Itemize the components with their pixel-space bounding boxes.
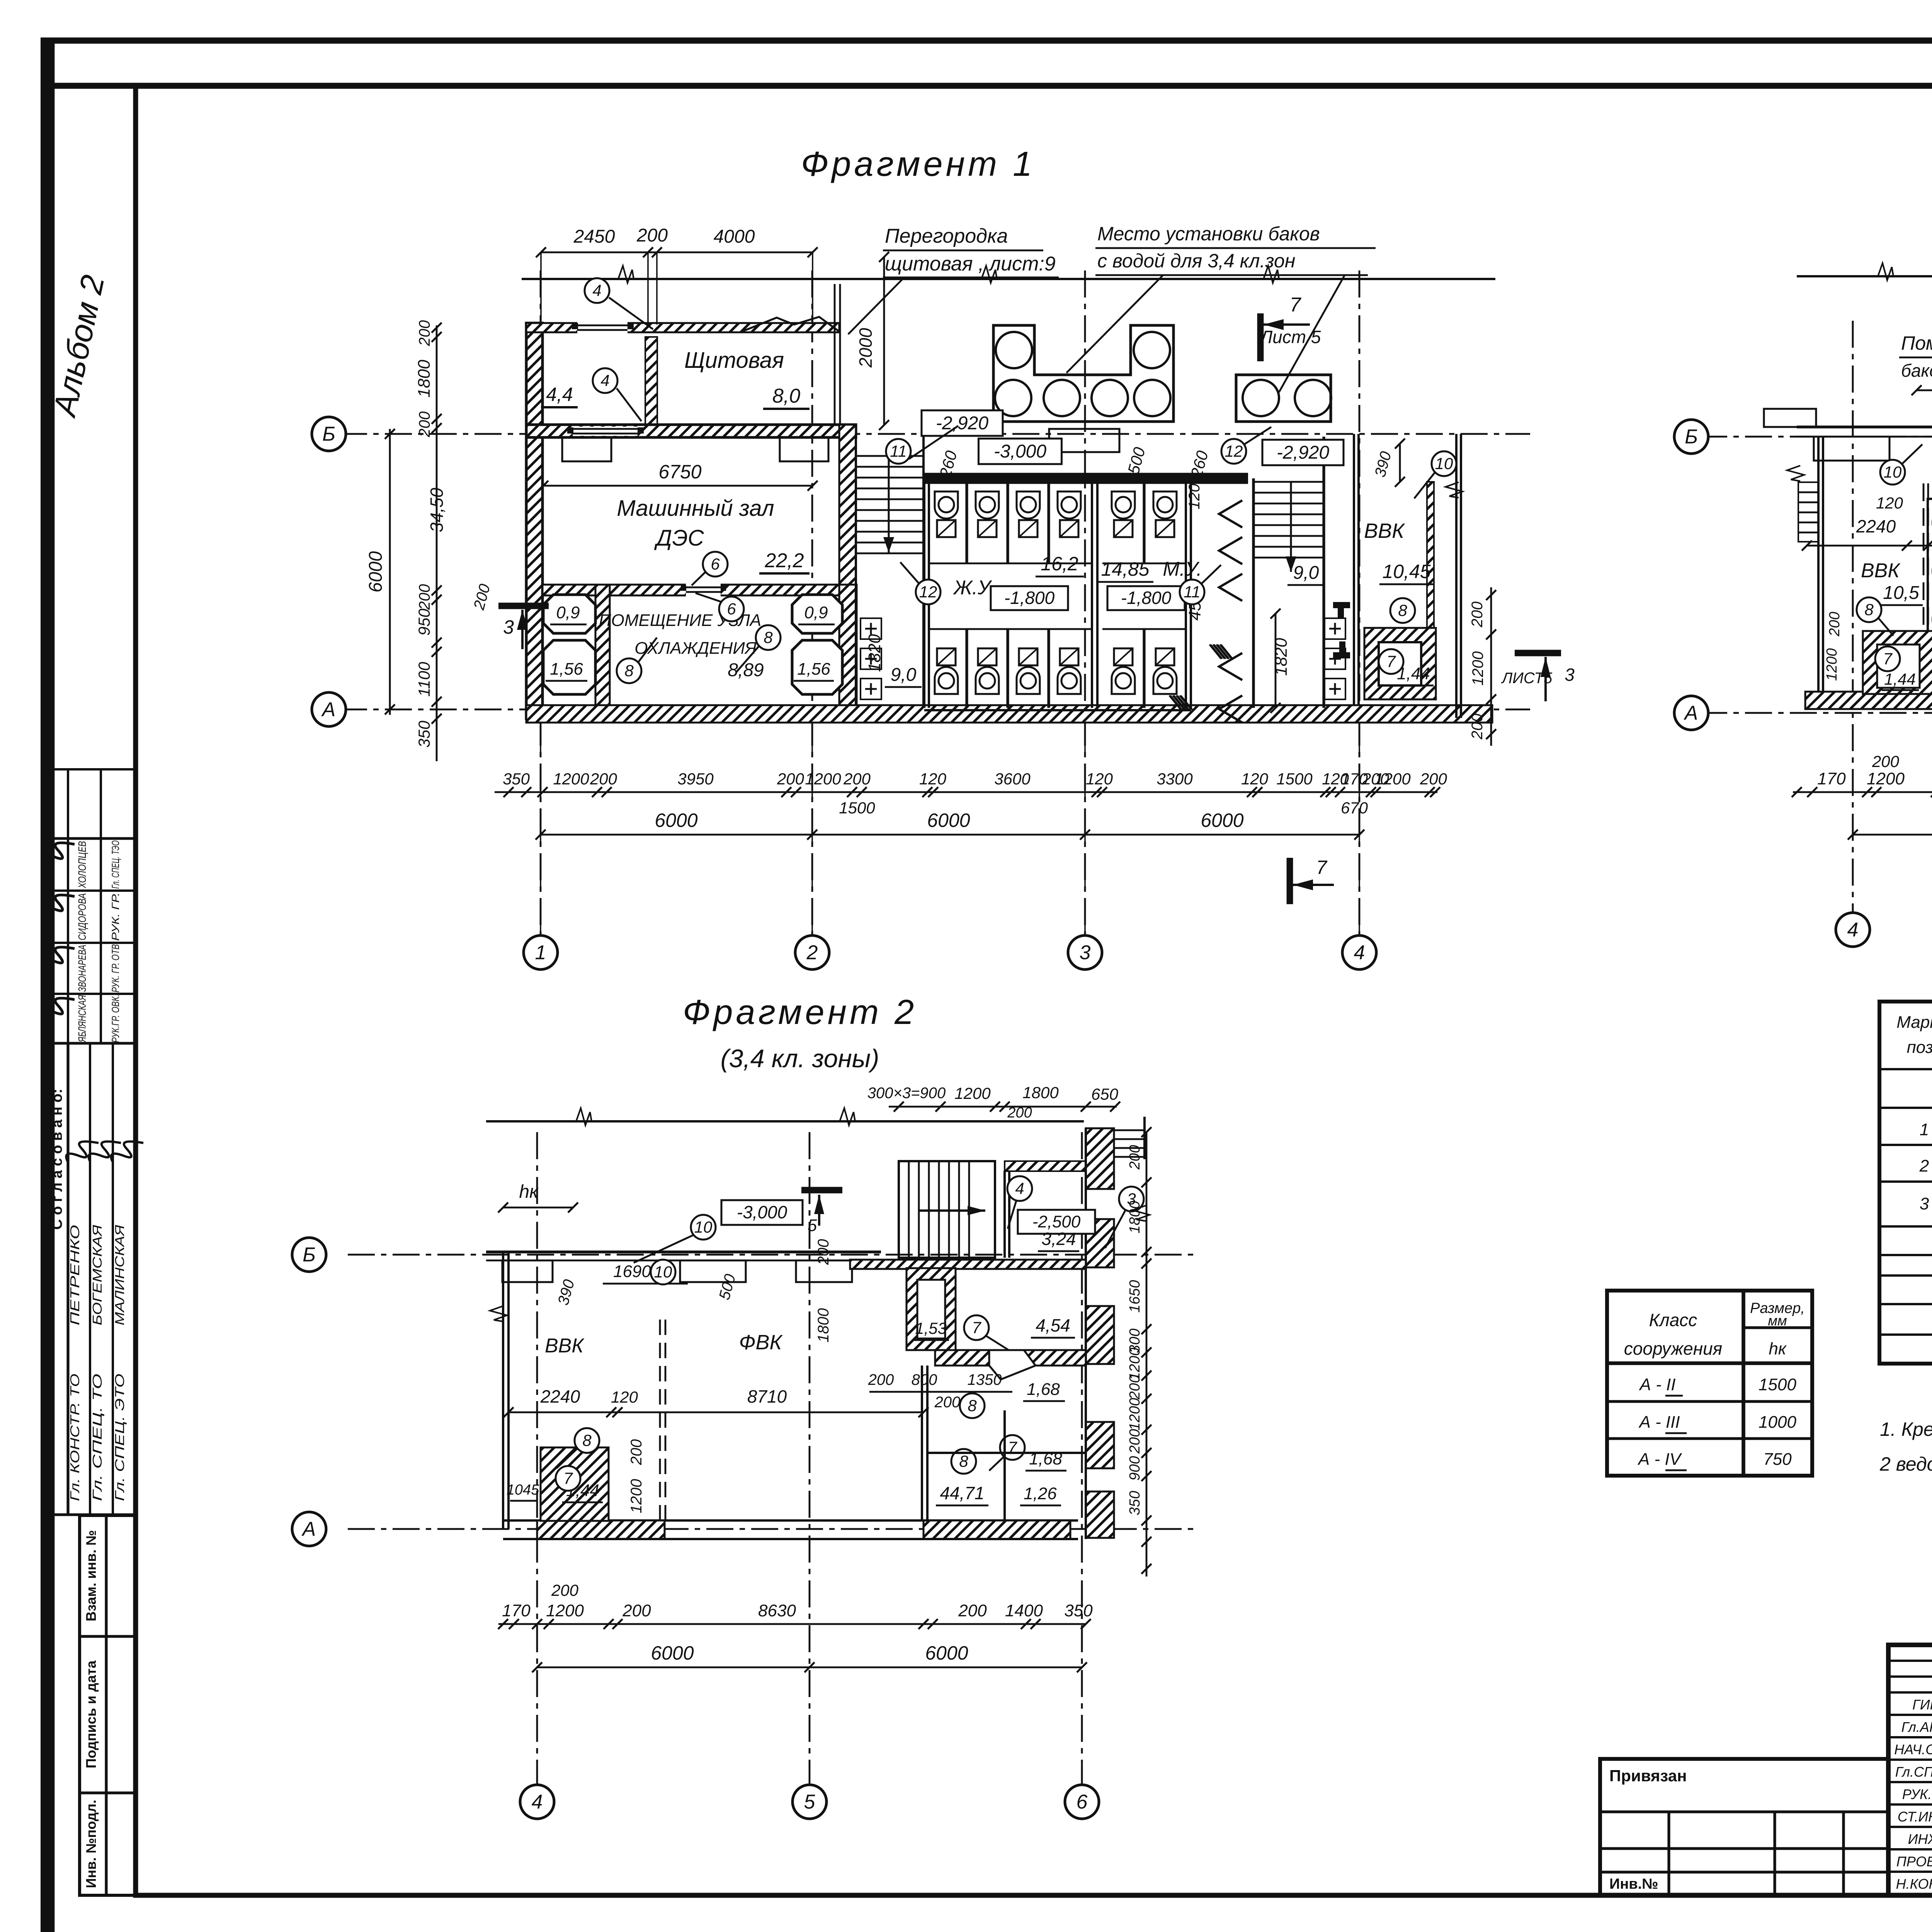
svg-text:9,0: 9,0	[891, 665, 917, 685]
axis line 3 vertical	[1084, 270, 1086, 935]
WC stalls lower row (men)	[1143, 629, 1145, 708]
circled marks fragment 1	[585, 278, 609, 303]
svg-text:3: 3	[503, 616, 514, 638]
svg-text:8: 8	[582, 1431, 592, 1449]
axis line 5 vertical frag3	[809, 1132, 811, 1785]
svg-text:350: 350	[503, 770, 530, 788]
inventory blocks bottom left	[80, 1515, 136, 1895]
svg-text:200: 200	[590, 770, 617, 788]
svg-text:5: 5	[808, 1216, 817, 1235]
svg-text:6: 6	[727, 600, 736, 618]
svg-text:1000: 1000	[1759, 1413, 1796, 1432]
stairwell 1 frag1	[855, 434, 857, 705]
axis bubble A frag2	[1674, 696, 1708, 730]
svg-text:8,0: 8,0	[772, 385, 800, 407]
svg-text:1200: 1200	[628, 1479, 645, 1514]
svg-text:Ж.У.: Ж.У.	[952, 577, 995, 599]
svg-text:1200: 1200	[1469, 651, 1486, 686]
svg-text:10,45: 10,45	[1382, 561, 1430, 582]
stairwell 2 frag1	[1252, 478, 1255, 708]
axis line 4 vertical frag3	[536, 1132, 538, 1785]
svg-text:А: А	[1684, 702, 1698, 724]
svg-text:120: 120	[1322, 770, 1349, 788]
bottom dim chain frag3	[498, 1623, 1086, 1625]
angle marks in VVK	[1333, 602, 1350, 619]
svg-text:1500: 1500	[1759, 1375, 1796, 1394]
svg-text:сооружения: сооружения	[1624, 1338, 1722, 1359]
svg-text:9,0: 9,0	[1293, 563, 1319, 583]
svg-text:120: 120	[1876, 494, 1903, 512]
svg-text:44,71: 44,71	[940, 1483, 984, 1503]
svg-text:с водой для 3,4 кл.зон: с водой для 3,4 кл.зон	[1097, 250, 1295, 272]
axis line A frag3	[348, 1528, 1198, 1530]
left exterior wall frag2	[1817, 437, 1820, 707]
svg-text:А - II: А - II	[1639, 1375, 1676, 1394]
svg-text:Гл. СПЕЦ. ТО: Гл. СПЕЦ. ТО	[90, 1374, 104, 1501]
svg-text:6000: 6000	[655, 810, 697, 831]
left dim stack frag1	[436, 325, 438, 761]
svg-text:Гл.СПЕЦ.: Гл.СПЕЦ.	[1895, 1764, 1932, 1780]
top wall of upper rooms	[526, 323, 839, 332]
svg-text:РУК.ГР. ОВК.: РУК.ГР. ОВК.	[110, 995, 121, 1043]
axis line A horizontal	[340, 709, 1530, 711]
svg-text:4: 4	[532, 1791, 543, 1813]
svg-text:3: 3	[1565, 665, 1575, 685]
svg-text:3: 3	[1920, 1194, 1929, 1213]
svg-text:2: 2	[1919, 1156, 1929, 1175]
svg-text:900: 900	[1127, 1456, 1143, 1480]
axis bubble 6 frag3	[1065, 1785, 1099, 1819]
svg-text:4: 4	[592, 281, 601, 299]
partition between room 4,4 and Shchitovaya	[645, 337, 657, 426]
axis bubble A	[312, 692, 346, 726]
svg-text:1800: 1800	[1022, 1083, 1059, 1102]
svg-text:8: 8	[624, 662, 634, 680]
svg-text:10,5: 10,5	[1883, 583, 1919, 603]
axis line B frag2	[1700, 436, 1932, 438]
svg-text:8: 8	[1864, 600, 1874, 619]
dim 1690 frag2	[1917, 389, 1932, 391]
svg-text:8630: 8630	[758, 1601, 796, 1620]
svg-text:200: 200	[843, 770, 871, 788]
dashed partition frag3	[659, 1320, 661, 1529]
crosshatch grate 2	[1169, 696, 1192, 710]
svg-text:1045: 1045	[507, 1482, 539, 1498]
svg-text:34,50: 34,50	[427, 488, 447, 532]
cell chamber 1,56 left	[543, 640, 595, 694]
cell 1,44 frag2	[1863, 631, 1932, 694]
machine hall bottom wall	[543, 585, 839, 595]
svg-text:1400: 1400	[1005, 1601, 1043, 1620]
svg-text:4: 4	[1015, 1179, 1024, 1197]
title block outer	[1888, 1645, 1932, 1895]
svg-text:120: 120	[1086, 770, 1113, 788]
svg-text:1200: 1200	[954, 1084, 991, 1102]
VVK cell 1,44	[1364, 628, 1436, 699]
tank circles B	[1243, 380, 1279, 416]
svg-text:ЗВОНАРЕВА: ЗВОНАРЕВА	[76, 945, 88, 992]
svg-text:-3,000: -3,000	[994, 441, 1046, 462]
svg-text:Щитовая: Щитовая	[684, 348, 784, 373]
approval block group 2: Согласовано	[49, 1043, 136, 1515]
svg-text:200: 200	[1469, 602, 1486, 628]
svg-text:Инв. №подл.: Инв. №подл.	[83, 1800, 99, 1888]
svg-text:Гл. КОНСТР. ТО: Гл. КОНСТР. ТО	[68, 1374, 82, 1501]
section flag 5 frag3	[801, 1187, 842, 1194]
cell chamber 1,56 right	[792, 640, 842, 694]
svg-text:ДЭС: ДЭС	[654, 526, 704, 551]
top dimension chain frag1	[541, 252, 813, 253]
axis bubble 1	[524, 935, 558, 969]
svg-text:МАЛИНСКАЯ: МАЛИНСКАЯ	[112, 1225, 127, 1325]
right vertical dims frag1	[1490, 587, 1492, 746]
axis bubble B frag2	[1674, 420, 1708, 454]
svg-text:1200: 1200	[805, 770, 841, 788]
svg-text:1,56: 1,56	[797, 660, 830, 679]
svg-text:3,24: 3,24	[1041, 1229, 1076, 1249]
partition walls mid frag3	[921, 1366, 923, 1520]
plus fixtures right	[1325, 618, 1345, 639]
svg-text:4: 4	[1847, 919, 1859, 941]
svg-text:ВВК: ВВК	[545, 1335, 585, 1357]
svg-text:1200: 1200	[1867, 769, 1905, 788]
svg-text:Инв.№: Инв.№	[1609, 1876, 1658, 1892]
svg-text:8: 8	[959, 1452, 968, 1470]
svg-text:7: 7	[1316, 857, 1328, 878]
concrete band right frag3	[1086, 1128, 1114, 1189]
cooling cells mid wall band left	[595, 585, 610, 709]
svg-text:1,53: 1,53	[915, 1319, 947, 1337]
svg-text:200: 200	[416, 584, 433, 611]
svg-text:200: 200	[1872, 752, 1900, 770]
svg-text:6: 6	[1077, 1791, 1088, 1813]
svg-text:170: 170	[502, 1601, 531, 1620]
B wall frag3	[486, 1250, 881, 1253]
svg-text:Н.КОНТР: Н.КОНТР	[1896, 1876, 1932, 1892]
svg-text:ЯБЛЯНСКАЯ: ЯБЛЯНСКАЯ	[76, 995, 88, 1043]
tank group B outline	[1236, 375, 1331, 422]
svg-text:1800: 1800	[815, 1308, 832, 1343]
svg-text:200: 200	[1420, 770, 1447, 788]
svg-text:200: 200	[777, 770, 804, 788]
svg-text:1: 1	[535, 942, 546, 964]
level box -3,000 frag3	[721, 1200, 803, 1225]
svg-text:щитовая , лист:9: щитовая , лист:9	[885, 253, 1056, 275]
svg-text:7: 7	[1290, 294, 1302, 316]
vertical dim 2000 frag1	[883, 257, 885, 425]
top ground line with breaks	[522, 278, 1495, 280]
svg-text:8,89: 8,89	[728, 660, 764, 680]
svg-text:200: 200	[1362, 770, 1389, 788]
svg-text:1,44: 1,44	[1884, 670, 1916, 688]
svg-text:300×3=900: 300×3=900	[867, 1085, 946, 1102]
section flag list5 right	[1515, 650, 1561, 656]
tank circles A	[996, 332, 1032, 368]
svg-text:Место установки баков: Место установки баков	[1097, 223, 1320, 245]
svg-text:Фрагмент 1: Фрагмент 1	[801, 145, 1035, 184]
svg-text:750: 750	[1763, 1450, 1792, 1469]
svg-text:ГИП: ГИП	[1912, 1697, 1932, 1713]
svg-text:7: 7	[1386, 652, 1396, 670]
bottom exterior wall frag1	[526, 705, 1492, 723]
left exterior wall frag1	[526, 323, 543, 719]
svg-text:200: 200	[551, 1581, 579, 1599]
svg-text:200: 200	[1827, 612, 1843, 636]
svg-text:6000: 6000	[1201, 810, 1243, 831]
svg-text:22,2: 22,2	[764, 549, 804, 572]
svg-text:Б: Б	[322, 423, 335, 446]
svg-text:200: 200	[628, 1439, 645, 1466]
svg-text:670: 670	[1341, 799, 1368, 817]
svg-text:2240: 2240	[540, 1386, 580, 1406]
cooling cells mid wall band right	[839, 585, 857, 709]
svg-text:200: 200	[1127, 1145, 1143, 1170]
svg-text:10: 10	[1884, 463, 1902, 481]
svg-text:ВВК: ВВК	[1861, 560, 1901, 582]
opening arc in top wall	[742, 317, 839, 332]
top band line	[44, 83, 1932, 89]
dim 390 VVK	[1399, 444, 1401, 482]
axis line A frag2	[1700, 712, 1932, 714]
WC stalls upper row (women)	[965, 484, 968, 563]
svg-text:1,68: 1,68	[1027, 1380, 1060, 1399]
bottom dim chain 1 frag1	[495, 791, 1437, 793]
svg-text:200: 200	[958, 1601, 987, 1620]
svg-text:-2,920: -2,920	[1277, 442, 1329, 463]
svg-text:НАЧ.ОТД.: НАЧ.ОТД.	[1894, 1742, 1932, 1757]
svg-text:А - IV: А - IV	[1637, 1450, 1682, 1469]
stall front lines	[929, 563, 1092, 565]
sheet outer border left thick edge	[44, 41, 55, 1932]
svg-text:1,26: 1,26	[1024, 1484, 1057, 1503]
svg-text:3: 3	[1080, 942, 1091, 964]
svg-text:4,4: 4,4	[546, 384, 573, 405]
tank column 1 frag2	[1928, 499, 1932, 692]
svg-text:200: 200	[934, 1394, 961, 1411]
svg-text:С о г л а с о в а н о:: С о г л а с о в а н о:	[49, 1089, 65, 1230]
VVK room walls	[1353, 434, 1355, 705]
VVK hatched partition	[1427, 482, 1434, 628]
svg-text:1500: 1500	[1276, 770, 1313, 788]
stairs right frag3	[1114, 1129, 1145, 1131]
pilaster below B wall 2	[780, 437, 828, 461]
svg-text:8: 8	[968, 1396, 977, 1415]
approval block group 1 rows	[49, 838, 136, 1043]
svg-text:Гл. СПЕЦ. ТЭО: Гл. СПЕЦ. ТЭО	[110, 840, 121, 889]
privyazan annex	[1600, 1759, 1888, 1895]
svg-text:11: 11	[890, 442, 907, 460]
svg-text:8710: 8710	[747, 1386, 787, 1406]
svg-text:6000: 6000	[366, 551, 386, 592]
axis bubble 5 frag3	[793, 1785, 827, 1819]
svg-text:16,2: 16,2	[1041, 553, 1078, 575]
svg-text:РУК. ГР.: РУК. ГР.	[110, 893, 121, 941]
door gap in B wall	[573, 427, 638, 436]
svg-text:ИНЖ.: ИНЖ.	[1908, 1831, 1932, 1847]
toilet room top wall (260 offset)	[923, 473, 1248, 484]
bottom 6000 chain frag2	[1853, 834, 1932, 836]
svg-text:ЛИСТ5: ЛИСТ5	[1501, 670, 1553, 687]
svg-text:РУК. ГР. ОТВ: РУК. ГР. ОТВ	[110, 944, 121, 993]
svg-text:1350: 1350	[968, 1371, 1002, 1388]
svg-text:1650: 1650	[1127, 1280, 1143, 1313]
left 6000 dim frag1	[389, 429, 391, 715]
plus fixtures left	[861, 618, 881, 639]
top dims frag3	[889, 1106, 1117, 1108]
B wall segment frag3 right	[850, 1260, 1086, 1269]
svg-text:Подпись и дата: Подпись и дата	[83, 1660, 99, 1769]
svg-text:120: 120	[919, 770, 947, 788]
svg-text:Марка,: Марка,	[1896, 1013, 1932, 1032]
svg-text:800: 800	[912, 1371, 937, 1388]
svg-text:12: 12	[1225, 442, 1243, 460]
svg-text:1: 1	[1920, 1120, 1929, 1139]
left exterior wall frag3	[502, 1252, 504, 1529]
stub above B frag2 left	[1764, 409, 1816, 427]
axis bubble 3	[1068, 935, 1102, 969]
svg-text:1800: 1800	[415, 360, 434, 398]
top break line frag3	[486, 1120, 1084, 1122]
svg-text:Машинный зал: Машинный зал	[617, 496, 774, 521]
svg-text:ФВК: ФВК	[739, 1331, 783, 1354]
axis line 4 vertical	[1359, 270, 1361, 935]
tank group A outline	[993, 325, 1173, 422]
svg-text:120: 120	[1186, 484, 1203, 510]
svg-text:14,85: 14,85	[1101, 558, 1149, 580]
top break line frag2	[1797, 275, 1932, 277]
bottom wall frag2	[1805, 692, 1932, 709]
cell 1,44 frag3	[541, 1447, 609, 1521]
level boxes fragment 1	[922, 410, 1003, 436]
bottom 6000 chain frag3	[537, 1667, 1082, 1668]
wall on axis B frag1 left part	[526, 425, 856, 437]
svg-text:мм: мм	[1768, 1313, 1787, 1328]
svg-text:650: 650	[1091, 1085, 1119, 1103]
svg-text:200: 200	[1007, 1105, 1032, 1121]
door gap in top wall	[577, 321, 628, 334]
svg-text:200: 200	[416, 412, 433, 438]
svg-text:4: 4	[1354, 942, 1365, 964]
svg-text:Фрагмент 2: Фрагмент 2	[683, 993, 917, 1032]
svg-text:ПЕТРЕНКО: ПЕТРЕНКО	[68, 1225, 82, 1325]
svg-text:5: 5	[804, 1791, 816, 1813]
bottom dim chain 6000s frag1	[541, 834, 1359, 836]
svg-text:-1,800: -1,800	[1004, 588, 1055, 608]
svg-text:РУК.ГР.: РУК.ГР.	[1902, 1786, 1932, 1802]
svg-text:200: 200	[1469, 714, 1486, 740]
section flag 7 bottom	[1287, 858, 1293, 904]
svg-text:Б: Б	[303, 1244, 316, 1266]
svg-text:10: 10	[654, 1263, 672, 1281]
svg-text:6000: 6000	[651, 1642, 694, 1664]
svg-text:200: 200	[416, 320, 433, 347]
axis bubble 2	[795, 935, 829, 969]
signature table: approval block top	[49, 769, 136, 838]
svg-text:10: 10	[1435, 454, 1453, 473]
axis line 4 vertical frag2	[1852, 321, 1854, 912]
dashed partition right of Shchitovaya	[834, 284, 836, 425]
svg-text:120: 120	[611, 1388, 638, 1406]
svg-text:БОГЕМСКАЯ: БОГЕМСКАЯ	[90, 1225, 104, 1325]
svg-text:200: 200	[1127, 1429, 1143, 1454]
dim 1820 right	[1275, 614, 1277, 708]
svg-text:1500: 1500	[839, 799, 875, 817]
svg-text:ВВК: ВВК	[1364, 519, 1405, 543]
svg-text:350: 350	[1127, 1491, 1143, 1515]
section flag 3 left	[498, 603, 549, 609]
svg-text:3950: 3950	[677, 770, 714, 788]
svg-text:поз.: поз.	[1907, 1038, 1932, 1057]
chevron louvres column	[1219, 500, 1242, 527]
svg-text:2450: 2450	[573, 226, 615, 247]
axis bubble B	[312, 417, 346, 451]
svg-text:200: 200	[868, 1371, 894, 1388]
svg-text:0,9: 0,9	[804, 603, 828, 622]
svg-text:hк: hк	[1769, 1339, 1787, 1358]
svg-text:А: А	[301, 1518, 316, 1541]
svg-text:3300: 3300	[1156, 770, 1193, 788]
svg-text:10: 10	[694, 1218, 713, 1236]
svg-text:Перегородка: Перегородка	[885, 225, 1008, 247]
cell chamber 0,9 right	[792, 595, 842, 633]
svg-text:1100: 1100	[415, 662, 433, 697]
svg-text:8: 8	[1398, 601, 1407, 619]
axis bubble 4 frag3	[520, 1785, 554, 1819]
svg-text:Б: Б	[1685, 426, 1698, 448]
svg-text:Класс: Класс	[1649, 1310, 1697, 1330]
svg-text:Привязан: Привязан	[1609, 1767, 1687, 1785]
svg-text:-3,000: -3,000	[737, 1202, 787, 1222]
door gap in machine hall bottom wall	[686, 583, 721, 597]
svg-text:1820: 1820	[865, 634, 884, 672]
pilaster below B wall 1	[562, 437, 611, 461]
svg-text:1200: 1200	[1127, 1398, 1143, 1431]
stair complex top right frag3	[899, 1161, 995, 1258]
svg-text:hк: hк	[519, 1182, 539, 1202]
crosshatch grate 1	[1209, 645, 1233, 659]
svg-text:-1,800: -1,800	[1121, 588, 1172, 608]
axis bubble 4	[1342, 935, 1376, 969]
svg-text:1200: 1200	[1824, 648, 1840, 681]
svg-text:200: 200	[815, 1239, 832, 1265]
svg-text:170: 170	[1817, 769, 1846, 788]
toilet block walls	[923, 478, 925, 708]
upper room walls frag3	[1003, 1171, 1006, 1258]
svg-text:7: 7	[972, 1318, 981, 1337]
axis bubble 4 frag2	[1836, 913, 1870, 947]
section flag 7 top	[1257, 313, 1264, 361]
svg-text:1200: 1200	[546, 1601, 584, 1620]
bottom wall of 4,54 frag3	[935, 1350, 1086, 1366]
pilaster below axis B middle	[1049, 429, 1119, 452]
right dim chain frag3	[1146, 1132, 1148, 1577]
svg-text:4,54: 4,54	[1036, 1315, 1070, 1335]
svg-text:1800: 1800	[1127, 1201, 1143, 1234]
axis line 6 vertical frag3	[1081, 1132, 1083, 1785]
axis line B horizontal	[340, 433, 1530, 435]
bottom wall frag3	[503, 1519, 1078, 1522]
svg-text:М.У.: М.У.	[1163, 558, 1202, 580]
svg-text:200: 200	[636, 225, 668, 246]
svg-text:СИДОРОВА: СИДОРОВА	[76, 893, 88, 940]
svg-text:950: 950	[415, 608, 433, 636]
svg-text:1. Крепление теплоизоляции анк: 1. Крепление теплоизоляции анкерами см. …	[1880, 1418, 1932, 1440]
svg-text:СТ.ИНЖ.: СТ.ИНЖ.	[1898, 1809, 1932, 1825]
svg-text:ПРОВЕР.: ПРОВЕР.	[1896, 1854, 1932, 1869]
svg-text:(3,4 кл. зоны): (3,4 кл. зоны)	[721, 1044, 879, 1073]
svg-text:2000: 2000	[855, 328, 876, 368]
svg-text:11: 11	[1184, 583, 1201, 601]
